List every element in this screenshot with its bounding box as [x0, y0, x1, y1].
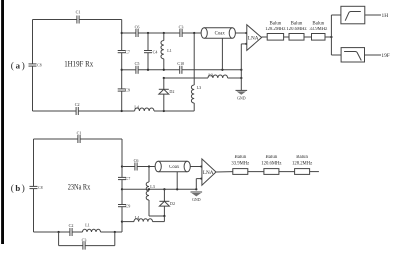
capacitor C3 (b) — [82, 237, 87, 249]
capacitor C10 — [177, 61, 184, 74]
svg-text:L3: L3 — [197, 85, 202, 90]
svg-text:19F: 19F — [381, 53, 389, 59]
svg-text:C7: C7 — [126, 176, 131, 181]
wire balun link 2 (a) — [304, 36, 312, 38]
ground GND (b) — [191, 192, 203, 202]
svg-text:1H: 1H — [382, 13, 389, 19]
capacitor C2 — [75, 102, 80, 115]
wire low-pass output — [365, 54, 382, 56]
capacitor C8 — [29, 64, 42, 68]
wire coax to LNA (b) — [190, 166, 202, 168]
balun filter Balun 33.9MHz (a) — [309, 21, 327, 40]
label (a) — [11, 60, 25, 71]
svg-text:Balun: Balun — [312, 21, 324, 26]
svg-text:C10: C10 — [177, 61, 184, 66]
node gnd-rail bottom-wire junction — [240, 69, 242, 71]
node bottom-left junction (b) — [57, 231, 59, 233]
junction rail-top wire — [121, 32, 123, 34]
inductor L1 (b) — [83, 223, 101, 232]
node label 1H output — [382, 13, 389, 19]
wire bottom return line (a) — [122, 110, 195, 112]
balun filter Balun 128.2MHz (b) — [292, 155, 312, 174]
svg-text:C1: C1 — [77, 131, 82, 136]
capacitor C1 (b) — [77, 131, 82, 144]
svg-text:(: ( — [11, 183, 14, 194]
svg-text:C3: C3 — [179, 24, 184, 29]
wire to low-pass filter — [331, 54, 341, 56]
svg-text:C1: C1 — [76, 9, 81, 14]
inductor L4 — [134, 104, 154, 111]
low-pass filter box — [341, 48, 364, 62]
high-pass filter box — [341, 6, 365, 24]
svg-text:C2: C2 — [75, 102, 80, 107]
node LNA+ input — [245, 32, 247, 34]
node D2 top junction (b) — [163, 188, 165, 190]
svg-text:L4: L4 — [134, 104, 139, 109]
node L3 mid junction (b) — [148, 188, 150, 190]
wire left edge of 1H19F Rx loop — [32, 20, 34, 112]
coax cable (a) — [201, 28, 235, 39]
junction rail-mid wire (b) — [121, 188, 123, 190]
svg-text:33.9MHz: 33.9MHz — [231, 161, 249, 166]
balun filter Balun 33.9MHz (b) — [231, 155, 249, 174]
wire bottom matching line (a) — [122, 69, 242, 71]
svg-text:C9: C9 — [125, 88, 130, 93]
svg-text:Balun: Balun — [234, 155, 246, 160]
wire to high-pass filter — [331, 14, 341, 16]
node L2 right junction — [240, 77, 242, 79]
svg-text:120.6MHz: 120.6MHz — [261, 161, 281, 166]
svg-text:a: a — [16, 60, 21, 70]
capacitor C1 — [76, 9, 81, 23]
op-amp LNA (a) — [247, 25, 262, 51]
wire balun link 1 (a) — [284, 36, 289, 38]
node coax tap junction (b) — [176, 188, 178, 190]
inductor L4 (b) — [134, 215, 153, 222]
svg-text:Balun: Balun — [296, 155, 308, 160]
svg-text:C3: C3 — [82, 237, 87, 242]
capacitor C4 — [144, 33, 157, 70]
junction rail-bottom edge — [121, 110, 123, 112]
inductor L3 — [191, 85, 201, 103]
wire L2 line (a) — [164, 77, 242, 79]
inductor L2 — [208, 72, 228, 78]
svg-text:1H19F Rx: 1H19F Rx — [64, 59, 94, 69]
svg-text:D2: D2 — [169, 89, 174, 94]
node coax-shield junction — [221, 69, 223, 71]
capacitor C8 (b) — [30, 186, 43, 190]
capacitor C2 (b) — [69, 223, 74, 236]
wire LNA ground input (a) — [241, 44, 247, 91]
node C4 top junction — [147, 32, 149, 34]
svg-text:23Na Rx: 23Na Rx — [68, 181, 91, 191]
coax cable (b) — [155, 161, 190, 172]
wire balun link 2 (b) — [279, 171, 295, 173]
svg-text:L3: L3 — [150, 184, 155, 189]
wire coax shield tap (a) — [221, 38, 223, 70]
wire LNA output (b) — [216, 171, 233, 173]
capacitor C7 (b) — [118, 176, 130, 181]
wire splitter vertical — [330, 15, 332, 55]
node LNA+ input (b) — [200, 165, 202, 167]
wire high-pass output — [365, 14, 381, 16]
svg-text:C2: C2 — [69, 223, 74, 228]
capacitor C9 — [118, 88, 130, 93]
wire top matching line (b) — [122, 166, 155, 168]
wire LNA ground input (b) — [196, 179, 202, 190]
svg-text:C7: C7 — [125, 49, 130, 54]
node L1 bottom junction — [163, 69, 165, 71]
capacitor C9 (b) — [118, 203, 130, 208]
black margin bar — [1, 0, 4, 244]
capacitor C6 — [135, 24, 140, 37]
svg-text:C5: C5 — [135, 61, 140, 66]
svg-text:Balun: Balun — [270, 21, 282, 26]
wire right rail (a) — [193, 33, 195, 111]
svg-text:C6: C6 — [134, 158, 139, 163]
label (b) — [11, 183, 25, 194]
wire coax shield tap (b) — [176, 172, 178, 190]
balun filter Balun 120.6MHz (a) — [286, 21, 306, 40]
svg-text:(: ( — [11, 61, 14, 72]
wire top edge of 23Na Rx loop — [34, 138, 123, 140]
node LNA- input — [245, 43, 247, 45]
node L2 left junction — [163, 77, 165, 79]
svg-text:D2: D2 — [170, 201, 175, 206]
svg-text:L1: L1 — [167, 48, 172, 53]
node right-rail top junction — [193, 32, 195, 34]
diode D2 (b) — [159, 189, 175, 216]
wire LNA output (a) — [262, 36, 268, 38]
svg-text:LNA: LNA — [203, 170, 214, 176]
junction rail-bottom wire — [121, 69, 123, 71]
wire right edge rail of 1H19F Rx loop — [121, 20, 123, 112]
node L1 top junction — [163, 32, 165, 34]
junction rail-L4 wire (b) — [121, 220, 123, 222]
svg-text:GND: GND — [192, 198, 201, 202]
op-amp LNA (b) — [202, 159, 216, 185]
svg-text:C8: C8 — [37, 64, 41, 68]
node gnd junction (b) — [195, 188, 197, 190]
node bottom-right junction (b) — [114, 231, 116, 233]
svg-text:Coax: Coax — [215, 32, 226, 37]
svg-text:C4: C4 — [153, 49, 158, 54]
svg-text:): ) — [22, 183, 25, 194]
svg-text:33.9MHz: 33.9MHz — [309, 27, 327, 32]
svg-text:128.2MHz: 128.2MHz — [292, 161, 312, 166]
node L3 top junction (b) — [148, 165, 150, 167]
svg-text:): ) — [22, 61, 25, 72]
wire L4 line (b) — [122, 216, 164, 222]
node splitter junction — [330, 36, 332, 38]
node label (b) circuit title 23Na Rx — [68, 181, 91, 191]
svg-text:Coax: Coax — [169, 165, 180, 170]
capacitor C7 — [118, 49, 130, 54]
node D2 bottom junction (b) — [163, 215, 165, 217]
capacitor C3 — [179, 24, 184, 37]
svg-text:GND: GND — [237, 96, 246, 100]
wire bottom edge of 1H19F Rx loop — [33, 110, 122, 112]
wire output (b) — [310, 171, 319, 173]
node label (a) circuit title 1H19F Rx — [64, 59, 94, 69]
svg-text:LNA: LNA — [248, 35, 259, 41]
node C4 bottom junction — [147, 69, 149, 71]
svg-text:L4: L4 — [135, 215, 140, 220]
svg-text:Balun: Balun — [291, 21, 303, 26]
wire top matching line (a) — [122, 32, 201, 34]
node LNA- input (b) — [200, 177, 202, 179]
wire balun link 1 (b) — [248, 171, 264, 173]
balun filter Balun 120.6MHz (b) — [261, 155, 281, 174]
wire left edge of 23Na Rx loop — [33, 139, 35, 232]
svg-text:120.6MHz: 120.6MHz — [286, 27, 306, 32]
svg-text:C6: C6 — [135, 24, 140, 29]
svg-text:128.2MHz: 128.2MHz — [265, 27, 285, 32]
svg-text:C8: C8 — [38, 186, 42, 190]
svg-text:L2: L2 — [208, 72, 213, 77]
svg-text:Balun: Balun — [266, 155, 278, 160]
capacitor C5 — [135, 61, 140, 74]
diode D2 — [159, 78, 175, 111]
svg-text:C9: C9 — [126, 203, 131, 208]
wire to splitter junction — [325, 36, 331, 38]
capacitor C6 (b) — [134, 158, 139, 171]
ground GND (a) — [236, 90, 248, 100]
node D2 bottom junction — [163, 110, 165, 112]
wire bottom edge of 23Na Rx loop — [34, 231, 123, 233]
balun filter Balun 128.2MHz (a) — [265, 21, 285, 40]
inductor L3 (b) — [146, 167, 164, 217]
wire top edge of 1H19F Rx loop — [33, 19, 122, 21]
node label 19F output — [381, 53, 389, 59]
wire right edge rail of 23Na Rx loop — [121, 139, 123, 232]
wire parallel branch (b) — [59, 232, 115, 246]
wire mid line (b) — [122, 188, 196, 190]
junction rail-top wire (b) — [121, 165, 123, 167]
wire coax to LNA (a) — [235, 32, 246, 34]
inductor L1 — [161, 33, 172, 70]
svg-text:b: b — [15, 183, 20, 193]
svg-text:L1: L1 — [85, 223, 90, 228]
